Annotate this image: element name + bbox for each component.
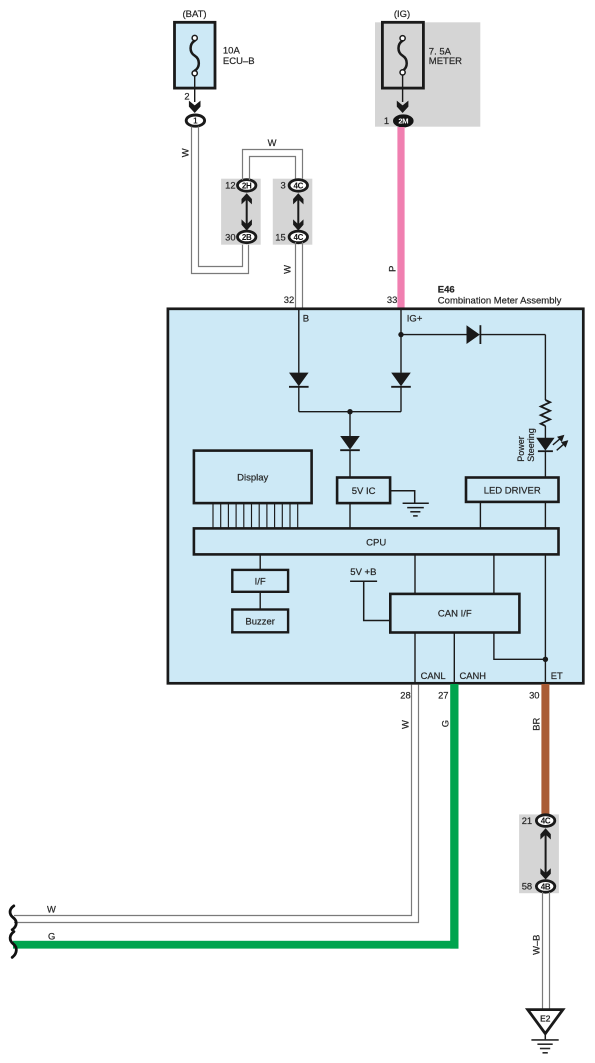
svg-text:G: G bbox=[440, 720, 451, 727]
svg-text:Power: Power bbox=[516, 436, 526, 462]
wire CAN I/F to ET line bbox=[494, 633, 546, 660]
svg-text:4C: 4C bbox=[293, 233, 303, 242]
junction connector block 4C/4B bbox=[519, 814, 559, 893]
label 10A ECU-B bbox=[223, 45, 255, 67]
wire resistor to LED bbox=[544, 426, 546, 438]
wire fuse to connector 1 bbox=[194, 76, 196, 102]
svg-text:METER: METER bbox=[429, 56, 462, 67]
E46 combination meter assembly box bbox=[168, 309, 583, 684]
svg-text:CPU: CPU bbox=[366, 537, 386, 548]
connector 2M bbox=[394, 116, 412, 126]
display unit block bbox=[194, 451, 312, 504]
svg-text:G: G bbox=[48, 931, 55, 942]
connector 4C upper bbox=[289, 180, 307, 192]
svg-text:30: 30 bbox=[529, 690, 539, 701]
svg-text:Buzzer: Buzzer bbox=[245, 617, 275, 628]
double arrow between 4C and 4C bbox=[293, 193, 303, 230]
svg-text:W–B: W–B bbox=[530, 935, 541, 955]
interface block I/F bbox=[232, 570, 288, 592]
wire D4 to resistor bbox=[544, 335, 546, 400]
svg-text:E46: E46 bbox=[438, 285, 455, 296]
svg-text:12: 12 bbox=[225, 180, 235, 191]
wire BR from pin 30 (ET) bbox=[541, 684, 549, 815]
arrow into connector 2M bbox=[397, 101, 409, 113]
wire CPU to ET pin bbox=[544, 554, 546, 683]
diode D1 bbox=[289, 373, 309, 412]
connector 4B bbox=[536, 881, 554, 893]
buzzer block bbox=[232, 610, 288, 633]
wire CPU to CAN I/F left bbox=[414, 554, 416, 594]
wire W connector 4C to pin 32 bbox=[296, 242, 303, 308]
svg-text:2M: 2M bbox=[398, 117, 408, 126]
svg-text:(BAT): (BAT) bbox=[182, 9, 206, 20]
wire fuse to connector 2M bbox=[402, 75, 404, 102]
connector 2B bbox=[238, 231, 256, 243]
wire W-B connector 4B to ground E2 bbox=[543, 892, 550, 1009]
label 7.5A METER bbox=[429, 46, 462, 67]
svg-text:P: P bbox=[386, 266, 397, 272]
diode D3 bbox=[340, 436, 360, 478]
connector 4C bottom bbox=[536, 815, 554, 827]
wire CPU to CAN I/F right bbox=[493, 554, 495, 594]
junction node on ET line bbox=[543, 657, 548, 662]
svg-text:BR: BR bbox=[531, 718, 542, 731]
svg-text:ET: ET bbox=[551, 670, 563, 681]
svg-text:W: W bbox=[180, 148, 191, 157]
connector 2H bbox=[238, 180, 256, 192]
label Power Steering (rotated) bbox=[516, 428, 536, 462]
svg-text:15: 15 bbox=[275, 232, 285, 243]
svg-text:4C: 4C bbox=[541, 817, 551, 826]
wire junction to diode D4 bbox=[401, 334, 467, 336]
svg-text:Steering: Steering bbox=[526, 428, 536, 462]
svg-text:32: 32 bbox=[284, 294, 294, 305]
wire 5V IC to CPU bbox=[349, 503, 351, 528]
power rail 5V +B to CAN I/F bbox=[350, 581, 390, 620]
driver block LED DRIVER bbox=[466, 478, 559, 502]
svg-text:5V IC: 5V IC bbox=[352, 486, 376, 497]
svg-text:W: W bbox=[282, 265, 293, 274]
wire CPU to I/F bbox=[259, 554, 261, 570]
continuation squiggle G wire bbox=[10, 932, 16, 958]
ground bars E2 bbox=[531, 1040, 558, 1053]
svg-text:4C: 4C bbox=[293, 181, 303, 190]
svg-text:10A: 10A bbox=[223, 45, 241, 56]
wire junction to diode D2 bbox=[400, 335, 402, 373]
svg-text:2B: 2B bbox=[242, 233, 252, 242]
CPU block bbox=[194, 528, 559, 554]
wire CAN I/F to CANH pin bbox=[453, 633, 455, 684]
junction connector block 4C/4C bbox=[273, 179, 313, 245]
svg-text:Combination Meter Assembly: Combination Meter Assembly bbox=[438, 296, 562, 307]
fuse 7.5A METER bbox=[382, 22, 423, 88]
svg-text:CANL: CANL bbox=[421, 670, 446, 681]
svg-text:58: 58 bbox=[522, 881, 532, 892]
svg-text:1: 1 bbox=[384, 115, 389, 126]
connector 1 bbox=[186, 115, 204, 126]
fuse 10A ECU-B (BAT) bbox=[175, 22, 216, 88]
ground E2 bbox=[528, 1010, 563, 1040]
wire W from pin 28 (CANL) bbox=[14, 685, 419, 923]
svg-text:4B: 4B bbox=[541, 882, 551, 891]
svg-text:I/F: I/F bbox=[255, 576, 266, 587]
svg-text:(IG): (IG) bbox=[394, 9, 410, 20]
wire LED DRIVER to CPU left bbox=[479, 502, 481, 529]
wire junction to diode D3 bbox=[349, 412, 351, 437]
transceiver block CAN I/F bbox=[390, 594, 519, 633]
svg-text:30: 30 bbox=[225, 232, 235, 243]
svg-text:IG+: IG+ bbox=[407, 313, 423, 324]
svg-text:28: 28 bbox=[400, 690, 410, 701]
svg-text:W: W bbox=[268, 137, 277, 148]
connector 4C lower bbox=[289, 231, 307, 243]
svg-text:33: 33 bbox=[387, 294, 397, 305]
LED light emission arrows bbox=[553, 436, 567, 451]
svg-text:2: 2 bbox=[184, 90, 189, 101]
resistor R1 bbox=[541, 400, 550, 426]
svg-text:CAN I/F: CAN I/F bbox=[438, 609, 472, 620]
arrow into connector 1 bbox=[189, 101, 201, 113]
junction node IG+ bbox=[398, 332, 403, 337]
LED power steering indicator bbox=[536, 438, 554, 478]
wire 5V IC to ground bbox=[390, 491, 414, 504]
wire I/F to buzzer bbox=[259, 592, 261, 610]
display to CPU comb wires bbox=[213, 503, 298, 528]
wire IG+ to junction bbox=[400, 308, 402, 335]
svg-text:5V +B: 5V +B bbox=[350, 567, 376, 578]
wire CAN I/F to CANL pin bbox=[414, 633, 416, 684]
wire joining D1 and D2 bbox=[299, 411, 401, 413]
wire B to diode D1 bbox=[298, 308, 300, 373]
svg-text:B: B bbox=[303, 313, 309, 324]
double arrow between 4C and 4B bbox=[540, 828, 550, 879]
wire LED DRIVER to CPU right bbox=[544, 502, 546, 529]
svg-text:CANH: CANH bbox=[460, 670, 487, 681]
wire W connector 1 to connector 2B bbox=[192, 127, 249, 274]
svg-text:E2: E2 bbox=[540, 1013, 551, 1023]
svg-text:3: 3 bbox=[280, 180, 285, 191]
svg-text:W: W bbox=[400, 720, 411, 729]
wire W connector 2H to connector 4C bbox=[243, 150, 303, 181]
junction node at joined diodes bbox=[347, 409, 352, 414]
wire G from pin 27 (CANH) bbox=[13, 684, 459, 949]
diode D4 bbox=[467, 325, 546, 344]
svg-text:21: 21 bbox=[522, 815, 532, 826]
svg-text:LED DRIVER: LED DRIVER bbox=[484, 486, 541, 497]
svg-text:ECU–B: ECU–B bbox=[223, 56, 255, 67]
junction connector block 2H/2B bbox=[221, 179, 261, 245]
svg-text:W: W bbox=[47, 903, 56, 914]
wire P connector 2M to pin 33 bbox=[397, 127, 404, 308]
diode D2 bbox=[391, 373, 411, 412]
svg-text:27: 27 bbox=[438, 690, 448, 701]
double arrow between 2H and 2B bbox=[242, 193, 252, 230]
svg-text:2H: 2H bbox=[242, 181, 252, 190]
svg-text:1: 1 bbox=[193, 117, 198, 126]
regulator 5V IC bbox=[337, 478, 390, 504]
ground of 5V IC bbox=[403, 503, 429, 516]
svg-text:Display: Display bbox=[237, 473, 268, 484]
fuse 7.5A METER (IG) gray block bbox=[375, 22, 480, 126]
continuation squiggle W wire bbox=[10, 906, 16, 930]
